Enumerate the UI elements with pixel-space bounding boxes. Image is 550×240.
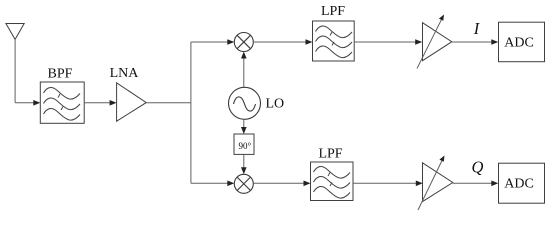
arrowhead into VGA 2 [416,181,423,187]
arrowhead into mixer 2 [227,181,234,187]
VGA 2 gain arrow [418,159,443,211]
svg-text:90°: 90° [238,141,251,151]
lower branch wire to mixer 2 [191,182,228,184]
svg-text:I: I [473,19,481,38]
ADC 1 box [499,22,545,62]
LPF 2 waves [314,166,351,198]
BPF box [40,82,84,123]
wire BPF to LNA [84,102,110,104]
arrowhead down into mixer 2 [241,167,247,174]
upper branch wire to mixer [191,41,228,43]
wire LPF 1 to VGA 1 [354,41,416,43]
arrowhead into LPF 2 [304,181,311,187]
LNA amplifier triangle [117,83,147,121]
arrowhead into ADC 1 [491,39,498,45]
ADC 2 box [499,163,545,203]
svg-text:LO: LO [266,97,285,112]
svg-text:LPF: LPF [318,146,342,161]
svg-text:ADC: ADC [504,176,534,191]
mixer 2 (circle with X) [234,174,253,193]
svg-text:LNA: LNA [110,66,140,81]
antenna [6,24,24,103]
wire LPF 2 to VGA 2 [353,182,417,184]
arrowhead into BPF [33,100,40,106]
wire LNA to splitter [146,102,191,104]
LO oscillator circle [229,87,261,119]
VGA 2 amplifier triangle [423,163,453,202]
wire VGA 1 to ADC 1 [452,41,492,43]
arrowhead down into 90 deg box [241,127,247,134]
BPF tick marks [58,94,63,110]
arrowhead into LPF 1 [306,39,313,45]
arrowhead up into mixer 1 [241,52,247,59]
svg-text:BPF: BPF [48,66,73,81]
wire VGA 2 to ADC 2 [453,182,492,184]
arrowhead into ADC 2 [491,181,498,187]
svg-text:LPF: LPF [321,4,345,19]
phase shifter 90 deg box [234,134,254,154]
wire mixer 1 to LPF 1 [253,41,306,43]
arrowhead into mixer 1 [227,39,234,45]
BPF waves [44,87,81,120]
LPF 1 waves [316,26,353,58]
LPF 2 tick marks [328,173,332,187]
arrowhead into VGA 1 [415,39,422,45]
VGA 1 gain arrow [417,18,443,69]
LPF 1 tick marks [330,32,334,46]
splitter vertical wire [190,42,192,183]
wire LO to 90 deg box (down) [243,119,245,128]
arrowhead into LNA [110,100,117,106]
wire 90 deg box to mixer 2 [243,154,245,167]
mixer 1 (circle with X) [234,33,253,52]
LPF 1 box [313,21,355,61]
svg-text:Q: Q [472,157,484,176]
VGA 1 amplifier triangle [423,23,452,61]
svg-text:ADC: ADC [504,36,534,51]
wire mixer 2 to LPF 2 [253,182,304,184]
LPF 2 box [311,162,354,201]
wire antenna to BPF [15,102,34,104]
wire LO to mixer 1 (up) [243,58,245,88]
